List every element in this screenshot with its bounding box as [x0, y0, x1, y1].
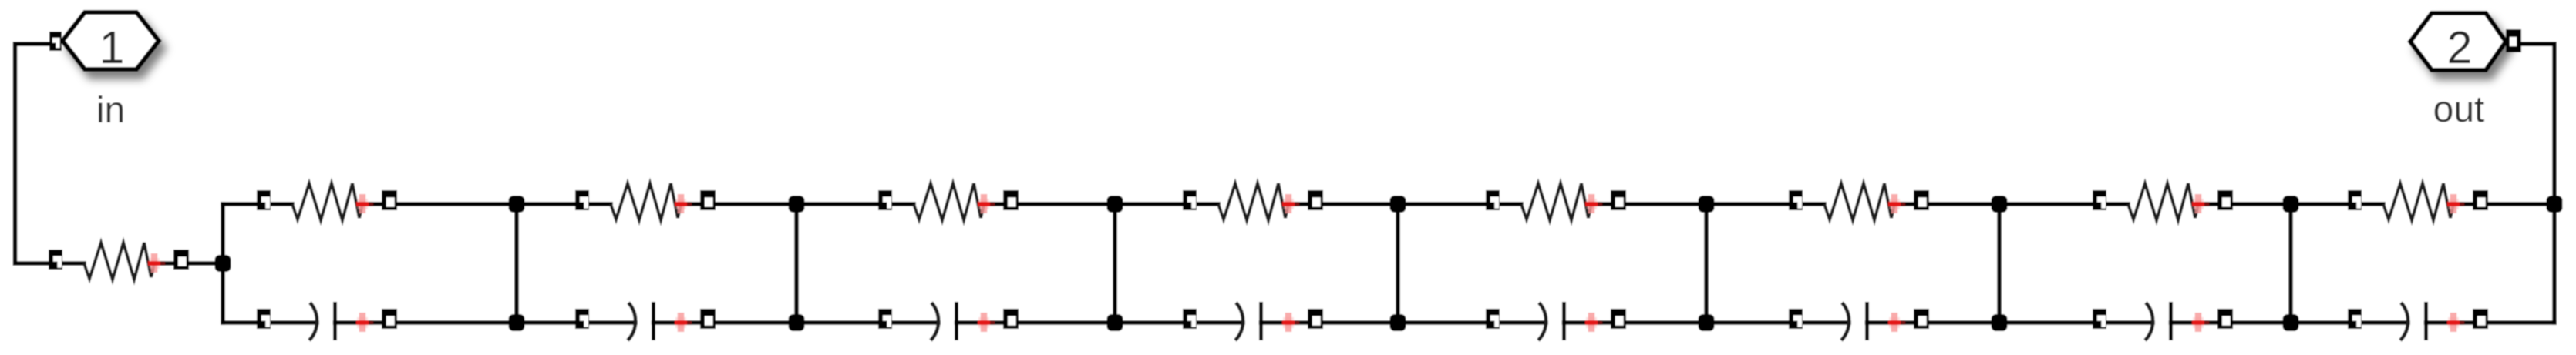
capacitor C8: [2348, 302, 2488, 340]
resistor R6: [1486, 183, 1626, 220]
wire top rail segment: [2198, 202, 2291, 206]
capacitor C2: [575, 302, 716, 340]
wire bottom rail segment: [2426, 320, 2555, 325]
wire from port 2 down the right edge: [2521, 44, 2554, 323]
node bottom rail junction 5: [1699, 314, 1715, 331]
wire bottom rail segment: [1115, 320, 1243, 325]
wire vertical tie between rails: [1396, 204, 1400, 323]
wire left riser column between top and bottom rails: [221, 204, 225, 323]
input port block 1: [62, 12, 159, 73]
wire bottom rail segment: [957, 320, 1116, 325]
node top rail junction 5: [1699, 196, 1715, 213]
capacitor C6: [1789, 302, 1929, 340]
wire bottom rail segment: [517, 320, 635, 325]
capacitor C3: [878, 302, 1019, 340]
capacitor C5: [1486, 302, 1626, 340]
wire top rail segment: [796, 202, 914, 206]
wire vertical tie between rails: [1997, 204, 2002, 323]
node top rail junction 1: [509, 196, 525, 213]
output port block 2: [2410, 13, 2506, 73]
wire bottom rail segment: [335, 320, 517, 325]
node bottom rail junction 7: [2283, 314, 2299, 331]
wire top rail segment: [1591, 202, 1706, 206]
wire top rail segment: [1894, 202, 1999, 206]
svg-text:out: out: [2433, 89, 2485, 130]
node top rail junction 3: [1107, 196, 1123, 213]
wire bottom rail segment: [2291, 320, 2408, 325]
wire top rail segment: [1999, 202, 2128, 206]
node A (feed junction): [215, 255, 231, 272]
wire vertical tie between rails: [1704, 204, 1709, 323]
wire bottom rail segment: [1706, 320, 1849, 325]
resistor R8: [2093, 183, 2233, 220]
node top rail junction 4: [1390, 196, 1406, 213]
wire top rail segment: [2453, 202, 2554, 206]
wire bottom rail segment: [1398, 320, 1546, 325]
wire top rail segment: [1288, 202, 1398, 206]
port square of input port 1: [49, 32, 62, 51]
svg-text:2: 2: [2447, 22, 2473, 73]
wire bottom rail segment: [1999, 320, 2153, 325]
wire top rail segment: [984, 202, 1115, 206]
wire top rail segment: [223, 202, 292, 206]
wire from port 1 down the left edge to feed resistor: [15, 44, 85, 263]
node top-right junction: [2547, 196, 2563, 213]
node top rail junction 6: [1992, 196, 2008, 213]
wire from feed resistor to node A: [154, 261, 223, 266]
resistor R3: [575, 183, 716, 220]
svg-text:1: 1: [99, 22, 125, 73]
node bottom rail junction 1: [509, 314, 525, 331]
capacitor C4: [1183, 302, 1323, 340]
resistor R1 (series feed): [49, 243, 189, 280]
node bottom rail junction 6: [1992, 314, 2008, 331]
wire top rail segment: [681, 202, 796, 206]
node top rail junction 7: [2283, 196, 2299, 213]
wire top rail segment: [2291, 202, 2383, 206]
node bottom rail junction 4: [1390, 314, 1406, 331]
wire vertical tie between rails: [794, 204, 799, 323]
svg-text:in: in: [96, 90, 125, 131]
wire top rail segment: [517, 202, 611, 206]
resistor R2: [257, 183, 397, 220]
wire bottom rail segment: [654, 320, 797, 325]
capacitor C1: [257, 302, 397, 340]
wire top rail segment: [1115, 202, 1218, 206]
wire bottom rail segment: [2171, 320, 2291, 325]
wire vertical tie between rails: [1113, 204, 1117, 323]
resistor R4: [878, 183, 1019, 220]
wire bottom rail segment: [1867, 320, 2000, 325]
wire top rail segment: [1706, 202, 1824, 206]
port square of output port 2: [2506, 29, 2521, 52]
wire bottom rail segment: [1261, 320, 1399, 325]
wire vertical tie between rails: [514, 204, 519, 323]
resistor R9: [2348, 183, 2488, 220]
wire top rail segment: [362, 202, 517, 206]
wire vertical tie between rails: [2288, 204, 2293, 323]
wire bottom rail segment: [1564, 320, 1707, 325]
resistor R5: [1183, 183, 1323, 220]
capacitor C7: [2093, 302, 2233, 340]
resistor R7: [1789, 183, 1929, 220]
node bottom rail junction 2: [789, 314, 805, 331]
wire top rail segment: [1398, 202, 1521, 206]
node bottom rail junction 3: [1107, 314, 1123, 331]
node top rail junction 2: [789, 196, 805, 213]
wire bottom rail segment: [223, 320, 317, 325]
wire bottom rail segment: [796, 320, 938, 325]
